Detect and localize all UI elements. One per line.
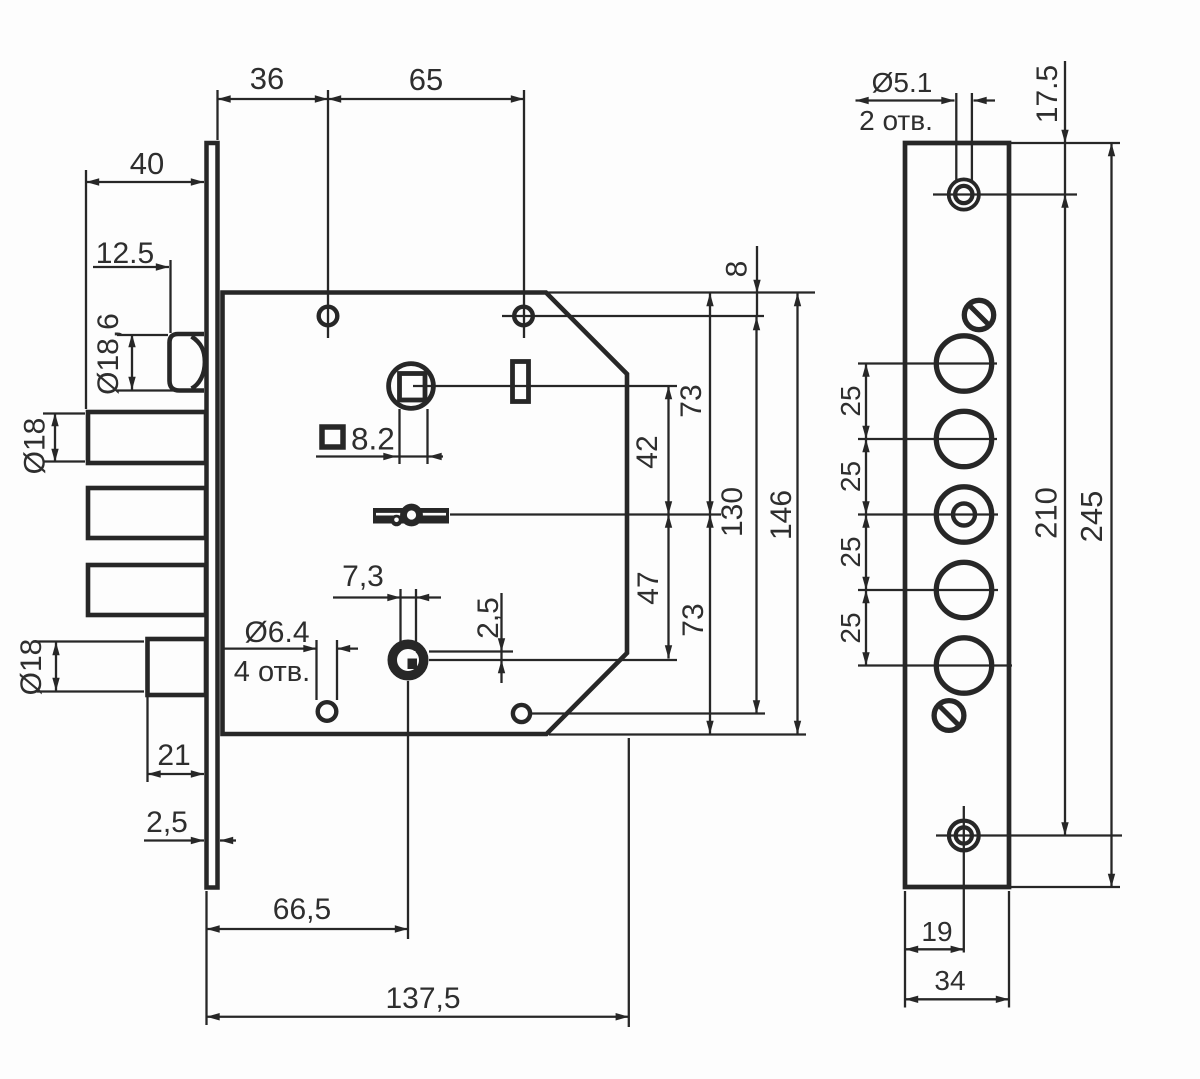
dim 66,5 [207, 928, 409, 930]
ext line top hole horizontal [933, 193, 1077, 195]
svg-text:Ø18: Ø18 [15, 639, 48, 696]
dim 21 [148, 773, 205, 775]
svg-text:8.2: 8.2 [351, 421, 395, 457]
mounting hole bottom-left (Ø6.4) [318, 702, 337, 721]
center line spindle to right [413, 385, 677, 387]
ext line body right down (137,5) [628, 738, 630, 1027]
keyhole cylinder ring [392, 644, 424, 676]
deadbolt 3 [88, 565, 206, 615]
deadbolt 1 (Ø18) [88, 412, 206, 463]
thumbturn slit [376, 513, 446, 516]
spindle hole circle [389, 364, 434, 409]
dim Ø18,6 vertical [131, 334, 133, 390]
ext line lower bolt left down [146, 697, 148, 782]
dim Ø5.1 2 отв. [856, 99, 955, 101]
large hole 3 outer [936, 487, 991, 542]
svg-text:210: 210 [1029, 487, 1064, 539]
center line middle (thumbturn) to right [450, 513, 721, 515]
svg-text:7,3: 7,3 [342, 560, 384, 593]
dim 7,3 [333, 596, 441, 598]
dim 2,5 keyhole notch [500, 593, 502, 683]
dim 25 chain line [865, 364, 867, 666]
keyhole notch white square [402, 651, 416, 668]
ext line faceplate top up [216, 90, 218, 140]
latch bevel nose arc [192, 337, 205, 389]
lock body outline with chamfered right corners [223, 293, 628, 735]
svg-text:34: 34 [934, 965, 965, 996]
dim 73 73 line [709, 293, 711, 734]
dim 2,5 faceplate thickness [144, 839, 204, 841]
dim Ø18 lower bolt [55, 642, 57, 691]
latch bolt (D-shaped, Ø18,6) [170, 334, 205, 391]
lower auxiliary bolt (21mm) [148, 639, 207, 695]
svg-text:36: 36 [250, 61, 284, 96]
faceplate front view outline [905, 143, 1009, 887]
svg-text:130: 130 [716, 487, 749, 537]
svg-text:25: 25 [835, 536, 866, 567]
ext lines Ø5.1 hole [955, 93, 957, 181]
svg-text:8: 8 [721, 261, 754, 278]
dim 19 [905, 948, 964, 950]
dim 8.2 with square symbol [316, 455, 443, 457]
svg-text:2,5: 2,5 [472, 597, 505, 639]
dim 36 [218, 98, 329, 100]
ext line plate top right [1011, 142, 1120, 144]
svg-text:66,5: 66,5 [273, 893, 331, 926]
svg-text:245: 245 [1074, 491, 1109, 543]
dim 245 line [1110, 143, 1112, 887]
svg-text:4 отв.: 4 отв. [234, 656, 310, 688]
large hole 1 [936, 336, 991, 391]
dim 65 [328, 98, 524, 100]
ext line hole BR horizontal [532, 712, 765, 714]
ext line deadbolt1 bottom [43, 460, 85, 462]
dim 17.5 and 210 shared line [1064, 61, 1066, 836]
ext line body top edge to right [547, 291, 815, 293]
svg-text:17.5: 17.5 [1031, 65, 1064, 123]
ext line through hole TR horizontal (8 dim) [502, 315, 764, 317]
svg-text:Ø18,6: Ø18,6 [92, 313, 125, 395]
svg-text:2 отв.: 2 отв. [859, 105, 933, 136]
top screw hole countersunk [947, 178, 981, 212]
ext line keyhole notch top right (2,5) [429, 650, 513, 652]
ext line latch face 12.5 [169, 260, 171, 333]
top slotted screw head [964, 300, 993, 329]
svg-text:146: 146 [765, 490, 798, 540]
ext line plate right down [1008, 891, 1010, 1008]
large hole 3 inner [953, 504, 975, 526]
ext line keyhole notch left (7,3) [399, 589, 401, 646]
ext line bottom hole horizontal [936, 834, 1122, 836]
dim 130 line [755, 317, 757, 714]
bottom screw hole countersunk [947, 819, 981, 853]
ext line body bottom edge to right [549, 733, 806, 735]
ext line plate left down [904, 891, 906, 1008]
mounting hole top-right [514, 307, 533, 326]
svg-text:Ø18: Ø18 [19, 418, 52, 475]
mounting hole top-left [319, 307, 338, 326]
large hole 4 [936, 562, 991, 617]
ext line keyhole center down [407, 681, 409, 939]
center line keyhole to right [429, 659, 677, 661]
dim 8 right side [756, 246, 758, 317]
ext line through hole TR vertical [523, 90, 525, 338]
ext line plate bottom right [1011, 886, 1120, 888]
deadbolt 2 [88, 488, 206, 538]
ext line bottom hole vertical [963, 806, 965, 953]
ext line hole BL left (Ø6.4) [315, 640, 317, 700]
svg-text:47: 47 [632, 571, 665, 604]
svg-text:65: 65 [409, 62, 443, 97]
ext line lower bolt bottom [37, 690, 144, 692]
slot opening right of spindle [513, 362, 529, 402]
svg-text:73: 73 [677, 603, 710, 636]
dim 42 and 47 line [667, 386, 669, 659]
svg-text:Ø5.1: Ø5.1 [872, 67, 933, 98]
svg-text:25: 25 [835, 461, 866, 492]
dim 137,5 [207, 1016, 629, 1018]
thumbturn slot bar [373, 508, 449, 524]
ext line latch bottom [117, 389, 202, 391]
ext line hole BL right (Ø6.4) [336, 640, 338, 700]
svg-text:21: 21 [157, 739, 190, 772]
bottom slotted screw head [934, 701, 964, 731]
ext line deadbolt1 top [43, 412, 85, 414]
dim Ø18 deadbolt [54, 413, 56, 462]
svg-text:40: 40 [130, 146, 164, 181]
svg-text:2,5: 2,5 [146, 806, 188, 839]
svg-text:Ø6.4: Ø6.4 [244, 616, 309, 649]
dim 40 [86, 181, 204, 183]
dim Ø6.4 4 отв. [223, 647, 317, 649]
svg-text:137,5: 137,5 [385, 982, 460, 1015]
large hole 2 [936, 411, 991, 466]
ext line spindle square left down [398, 409, 400, 464]
dim 146 line [796, 293, 798, 734]
svg-text:73: 73 [675, 384, 708, 417]
svg-text:12.5: 12.5 [96, 237, 154, 270]
svg-text:25: 25 [835, 385, 866, 416]
ext line lower bolt top [37, 640, 144, 642]
svg-text:42: 42 [631, 435, 664, 468]
spindle square 8.2 [400, 374, 426, 401]
large hole 5 [936, 638, 991, 693]
thumbturn hub ring [400, 504, 423, 527]
keyhole inner square mark [408, 659, 418, 670]
thumbturn pin bump [391, 515, 403, 527]
svg-text:19: 19 [921, 916, 952, 947]
ext line keyhole notch right (7,3) [415, 589, 417, 646]
dim 12.5 [93, 266, 169, 268]
dim 34 [905, 998, 1009, 1000]
ext lines large holes left/right [858, 362, 997, 364]
ext line bolts left face [85, 170, 87, 409]
faceplate (side view, 2.5mm strip) [207, 143, 218, 888]
ext line spindle square right down [426, 409, 428, 464]
ext line through hole TL vertical [327, 90, 329, 338]
svg-text:25: 25 [835, 612, 866, 643]
mounting hole bottom-right [513, 705, 530, 722]
ext line faceplate left down [205, 891, 207, 1025]
ext line latch top [117, 334, 168, 336]
